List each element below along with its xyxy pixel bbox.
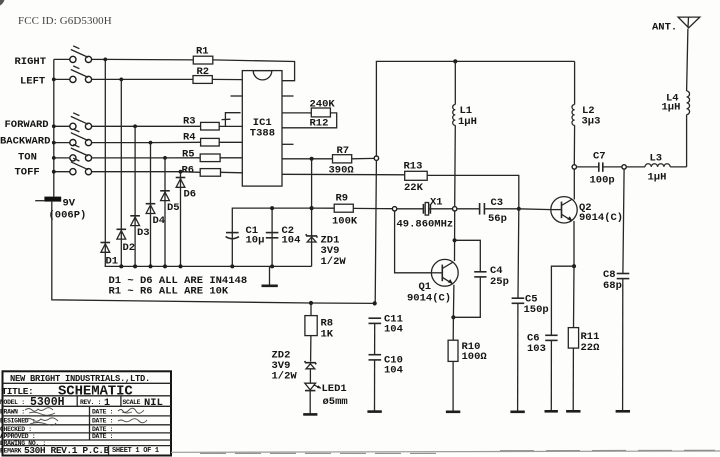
svg-text:100K: 100K [332, 216, 358, 228]
switch SW-BACKWARD [54, 129, 151, 146]
junction dots on switch bus [52, 78, 56, 82]
wire R2 to IC1 [212, 78, 242, 80]
scan blob top-left corner [0, 0, 5, 6]
wire R13 to oscillator node [427, 175, 519, 208]
svg-text:C3: C3 [491, 197, 504, 209]
svg-text:DATE :: DATE : [92, 409, 113, 416]
node junction Q1 emitter/R10/C4 [451, 315, 455, 319]
node junction rail/R9/ZD1 [310, 206, 314, 210]
svg-text:BACKWARD: BACKWARD [0, 136, 50, 148]
svg-text:100Ω: 100Ω [462, 351, 488, 363]
resistor R1 [193, 56, 213, 64]
wire node to Q2 base [519, 208, 552, 211]
capacitor C1 10u [226, 225, 265, 247]
svg-text:R7: R7 [337, 145, 350, 157]
IC1 pin stub left [231, 95, 243, 97]
svg-text:1: 1 [104, 398, 110, 409]
resistor R6 [200, 169, 220, 177]
svg-text:103: 103 [527, 343, 546, 355]
svg-text:NIL: NIL [144, 397, 163, 409]
inductor L1 1uH [453, 61, 477, 206]
svg-text:LED1: LED1 [322, 383, 347, 395]
svg-text:56p: 56p [488, 213, 507, 225]
resistor R2 [193, 76, 212, 84]
resistor R9 100K [312, 192, 358, 227]
capacitor C3 56p [457, 197, 519, 225]
capacitor C8 68p [603, 169, 629, 411]
wire RIGHT row to R1 [105, 58, 193, 61]
svg-text:DRAWN :: DRAWN : [0, 409, 25, 416]
switch SW-FORWARD [54, 113, 135, 130]
capacitor C2 104 [266, 208, 301, 266]
wire Q1 base from X1 node [395, 211, 432, 273]
resistor R10 100ohm [448, 317, 487, 411]
svg-text:R11: R11 [581, 331, 600, 343]
svg-text:10μ: 10μ [246, 234, 265, 246]
svg-text:49.860MHz: 49.860MHz [397, 218, 454, 230]
svg-text:DATE :: DATE : [92, 426, 113, 433]
node ring C7/L3/C8 [622, 165, 626, 169]
svg-text:22Ω: 22Ω [581, 342, 601, 354]
svg-text:22K: 22K [404, 182, 424, 194]
ground C10 [367, 410, 381, 413]
node ring C7 left [572, 165, 576, 169]
resistor R4 [201, 138, 220, 146]
svg-text:DATE :: DATE : [92, 433, 113, 440]
svg-text:L3: L3 [650, 152, 663, 164]
capacitor C6 103 [527, 333, 558, 411]
wire: left switch common bus [53, 59, 55, 196]
node junction C4 top [453, 238, 457, 242]
svg-text:D3: D3 [137, 227, 150, 239]
IC1 pin stub right mid [282, 143, 294, 145]
ground C5 [510, 410, 524, 413]
ground R10 [446, 410, 460, 413]
inductor L3 1uH [626, 152, 686, 183]
battery BT1 9V [35, 197, 86, 222]
wire emitter to C6 branch [551, 266, 574, 335]
node junction C2 top [270, 206, 274, 210]
svg-text:1μH: 1μH [458, 116, 477, 128]
resistor R5 [200, 154, 220, 162]
transistor Q1 9014(C) [407, 259, 458, 304]
svg-text:R3: R3 [183, 115, 196, 127]
svg-text:R4: R4 [183, 131, 196, 143]
svg-text:DATE :: DATE : [92, 418, 113, 425]
wire R1 to IC1 riser [213, 60, 295, 81]
node junction battery rail / R8 [309, 301, 313, 305]
svg-text:MODEL :: MODEL : [0, 399, 25, 406]
svg-text:R13: R13 [404, 161, 423, 173]
capacitor C10 104 [369, 354, 403, 411]
antenna ANT. [652, 17, 700, 33]
svg-text:Q1: Q1 [419, 281, 432, 293]
svg-text:25p: 25p [490, 276, 509, 288]
switch SW-RIGHT [54, 46, 106, 63]
svg-text:9V: 9V [63, 197, 76, 209]
wire Q1 emitter [452, 285, 455, 318]
wire IC1 to R13 (long) [282, 173, 405, 176]
wire C5 branch [517, 209, 520, 298]
wire R7 to V+ rail [352, 157, 375, 159]
svg-text:RIGHT: RIGHT [15, 56, 47, 68]
diode D4 [146, 143, 165, 267]
wire FORWARD row to R3 [135, 125, 201, 127]
wire IC1 to R7 [282, 158, 333, 160]
diode D5 [160, 158, 179, 267]
svg-text:D2: D2 [123, 242, 136, 254]
svg-text:SCHEMATIC: SCHEMATIC [58, 384, 133, 400]
svg-text:R1 ~ R6 ALL ARE 10K: R1 ~ R6 ALL ARE 10K [109, 286, 229, 298]
node junction Q2 emitter [572, 264, 576, 268]
svg-text:R12: R12 [310, 117, 329, 129]
ground below diode bus [269, 266, 271, 285]
svg-text:TITLE:: TITLE: [2, 386, 34, 397]
node junction LEFT/D2 [119, 78, 123, 82]
node junction R7/ZD1 branch [310, 157, 314, 161]
wire Q2 collector [573, 169, 575, 200]
wire LEFT row to R2 [121, 78, 193, 80]
svg-text:104: 104 [384, 324, 403, 336]
capacitor C11 104 [369, 313, 403, 354]
node junction C3/R13/C5/Q2 base [517, 207, 521, 211]
svg-text:FORWARD: FORWARD [5, 119, 49, 131]
resistor R7 390ohm [329, 145, 355, 177]
wire V+ vertical to C11 rail [375, 161, 376, 304]
ground C6 [545, 410, 558, 413]
resistor R13 22K [404, 161, 428, 195]
node junction TON/D5 [163, 156, 167, 160]
node junction L1 top [453, 59, 457, 63]
svg-text:1/2W: 1/2W [321, 256, 347, 268]
page bottom border [171, 451, 720, 452]
svg-text:9014(C): 9014(C) [407, 292, 451, 304]
svg-text:R1: R1 [196, 46, 209, 58]
wire R4 to IC1 [219, 141, 242, 143]
LED1 [305, 383, 348, 414]
svg-text:68p: 68p [603, 280, 622, 292]
svg-text:(006P): (006P) [49, 210, 87, 222]
svg-text:R5: R5 [182, 148, 195, 160]
wire C1/C2 top rail [232, 208, 311, 266]
svg-text:1μH: 1μH [662, 102, 681, 114]
IC IC1 T388 body [242, 71, 282, 187]
diode D3 [130, 126, 149, 266]
title block [0, 371, 171, 456]
wire diode common bus [105, 265, 312, 267]
wire battery negative rail [52, 202, 375, 304]
switch SW-TOFF [54, 158, 181, 175]
wire R5 to IC1 [220, 157, 242, 159]
svg-text:530H REV.1 P.C.B: 530H REV.1 P.C.B [24, 445, 110, 456]
ground C8 [616, 410, 630, 413]
svg-text:3μ3: 3μ3 [582, 116, 601, 128]
svg-text:T388: T388 [250, 128, 275, 140]
capacitor C5 150p [512, 294, 549, 412]
diode D6 [176, 172, 196, 267]
zener diode ZD1 3V9 [306, 159, 347, 268]
node ring R9/X1/Q1 base [392, 207, 396, 211]
handwriting scribbles [25, 408, 55, 416]
resistor R8 1K [305, 303, 334, 362]
svg-text:9014(C): 9014(C) [579, 212, 623, 224]
IC1 pin stub right upper [282, 95, 294, 97]
node ring X1/L1/Q1 collector [453, 207, 457, 211]
wire R9 to X1 node [353, 207, 392, 209]
svg-text:1μH: 1μH [648, 172, 667, 184]
svg-text:100p: 100p [590, 175, 615, 187]
wire TOFF row to R6 [181, 171, 201, 174]
svg-text:ø5mm: ø5mm [323, 396, 348, 408]
svg-text:TOFF: TOFF [15, 167, 40, 179]
svg-text:5300H: 5300H [30, 396, 65, 409]
svg-text:D5: D5 [167, 202, 180, 214]
wire Q2 emitter [573, 221, 575, 266]
svg-text:R6: R6 [182, 164, 195, 176]
node junction rail end / C11 [373, 301, 377, 305]
svg-text:240K: 240K [310, 98, 336, 110]
svg-text:1K: 1K [321, 328, 334, 340]
node ring R7 right [374, 156, 378, 160]
svg-text:CHECKED :: CHECKED : [0, 426, 32, 433]
wire R3 to IC1 with branch up [219, 125, 242, 127]
svg-text:150p: 150p [524, 304, 549, 316]
node junction BACKWARD/D4 [149, 141, 153, 145]
resistor R11 22ohm [568, 266, 600, 411]
switch SW-TON [54, 144, 165, 161]
wire V+ top bus [376, 61, 574, 155]
capacitor C4 25p [453, 240, 509, 317]
ground LED1 [303, 413, 317, 416]
svg-text:1/2W: 1/2W [272, 371, 298, 383]
node junction RIGHT/D1 [103, 58, 107, 62]
svg-text:FCC ID: G6D5300H: FCC ID: G6D5300H [18, 15, 112, 27]
resistor R12 240K loop [282, 98, 337, 129]
wire TON row to R5 [165, 157, 200, 159]
wire Q1 collector [454, 211, 456, 261]
diode D1 [101, 59, 119, 267]
svg-text:X1: X1 [430, 197, 443, 209]
svg-text:R9: R9 [336, 192, 349, 204]
transistor Q2 9014(C) [551, 197, 623, 225]
svg-text:D6: D6 [184, 189, 197, 201]
svg-text:D4: D4 [153, 215, 166, 227]
switch SW-LEFT [54, 66, 122, 83]
svg-text:REV. :: REV. : [80, 399, 101, 406]
wire BACKWARD row to R4 [151, 141, 201, 143]
wire R6 to IC1 [221, 171, 243, 174]
svg-text:NEW BRIGHT INDUSTRIALS.,LTD.: NEW BRIGHT INDUSTRIALS.,LTD. [10, 374, 150, 384]
diode D2 [117, 79, 136, 266]
inductor L4 1uH [662, 29, 690, 167]
node junction TOFF/D6 [179, 170, 183, 174]
capacitor C7 100p [577, 151, 622, 187]
svg-text:104: 104 [282, 234, 301, 246]
junction dots on diode bus [119, 264, 123, 268]
node junction FORWARD/D3 [133, 124, 137, 128]
svg-text:TON: TON [18, 152, 37, 164]
ground R11 [566, 410, 580, 413]
svg-text:ANT.: ANT. [652, 22, 677, 34]
inductor L2 3u3 [572, 61, 600, 164]
svg-text:104: 104 [384, 365, 403, 377]
zener diode ZD2 3V9 [272, 349, 317, 383]
svg-text:C7: C7 [593, 151, 606, 163]
svg-text:SHEET 1 OF 1: SHEET 1 OF 1 [112, 447, 159, 455]
crystal X1 49.860MHz [397, 197, 454, 231]
svg-text:LEFT: LEFT [20, 76, 45, 88]
svg-text:R2: R2 [197, 66, 210, 78]
resistor R3 [201, 122, 220, 130]
